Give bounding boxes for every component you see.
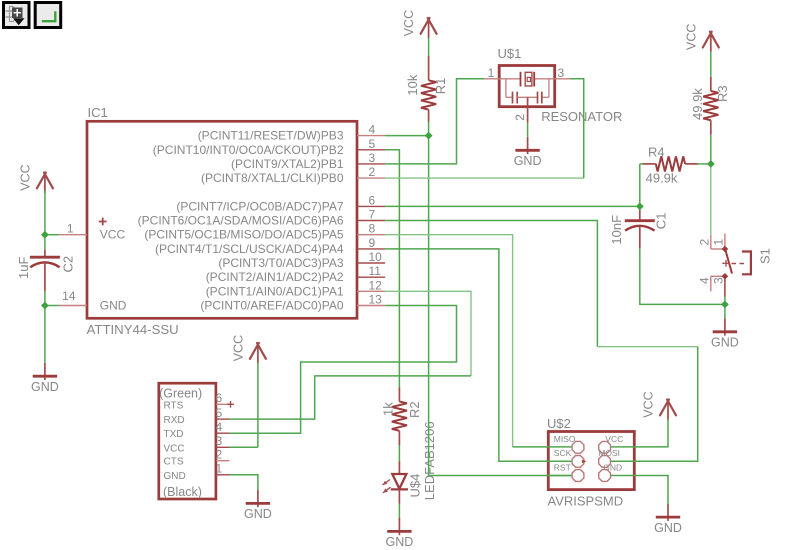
svg-text:TXD: TXD (164, 429, 184, 440)
svg-text:VCC: VCC (231, 335, 245, 361)
svg-text:1: 1 (488, 66, 495, 80)
svg-text:11: 11 (369, 264, 382, 278)
svg-text:5: 5 (216, 406, 223, 420)
svg-text:3: 3 (558, 66, 565, 80)
svg-text:9: 9 (369, 236, 376, 250)
svg-text:1: 1 (216, 462, 223, 476)
svg-text:1: 1 (67, 222, 74, 236)
svg-text:R1: R1 (433, 78, 448, 95)
svg-text:6: 6 (369, 193, 376, 207)
svg-text:GND: GND (514, 154, 542, 168)
svg-text:3: 3 (711, 277, 725, 284)
svg-text:AVRISPSMD: AVRISPSMD (548, 494, 624, 509)
svg-text:GND: GND (100, 299, 127, 313)
svg-text:4: 4 (369, 123, 376, 137)
svg-text:R2: R2 (407, 401, 422, 418)
svg-text:C1: C1 (654, 213, 669, 230)
svg-text:U$1: U$1 (498, 46, 522, 61)
svg-text:U$2: U$2 (547, 416, 571, 431)
svg-text:10k: 10k (405, 74, 420, 95)
svg-text:1uF: 1uF (16, 257, 31, 279)
svg-text:10: 10 (369, 250, 383, 264)
svg-text:49.9k: 49.9k (690, 88, 705, 120)
svg-text:(PCINT0/AREF/ADC0)PA0: (PCINT0/AREF/ADC0)PA0 (200, 299, 343, 313)
svg-text:RST: RST (554, 462, 571, 472)
svg-text:IC1: IC1 (88, 105, 108, 120)
svg-text:5: 5 (369, 137, 376, 151)
svg-text:(Black): (Black) (163, 485, 202, 499)
svg-text:(PCINT7/ICP/OC0B/ADC7)PA7: (PCINT7/ICP/OC0B/ADC7)PA7 (176, 199, 343, 213)
svg-text:3: 3 (369, 151, 376, 165)
svg-text:S1: S1 (758, 248, 773, 264)
svg-text:RXD: RXD (164, 415, 185, 426)
svg-text:14: 14 (62, 289, 76, 303)
svg-text:(Green): (Green) (159, 387, 202, 401)
svg-text:49.9k: 49.9k (646, 170, 678, 185)
svg-text:4: 4 (697, 277, 711, 284)
svg-text:ATTINY44-SSU: ATTINY44-SSU (87, 322, 179, 337)
svg-text:(PCINT5/OC1B/MISO/DO/ADC5)PA5: (PCINT5/OC1B/MISO/DO/ADC5)PA5 (144, 228, 343, 242)
svg-text:1: 1 (711, 239, 725, 246)
svg-text:MISO: MISO (554, 434, 576, 444)
svg-text:GND: GND (603, 462, 622, 472)
svg-text:2: 2 (513, 114, 527, 121)
svg-text:(PCINT10/INT0/OC0A/CKOUT)PB2: (PCINT10/INT0/OC0A/CKOUT)PB2 (153, 143, 344, 157)
svg-text:SCK: SCK (554, 448, 572, 458)
svg-text:GND: GND (654, 521, 682, 535)
svg-text:VCC: VCC (18, 164, 32, 190)
svg-text:12: 12 (369, 278, 383, 292)
svg-text:VCC: VCC (684, 24, 698, 50)
svg-text:RTS: RTS (164, 400, 184, 411)
svg-text:GND: GND (31, 380, 59, 394)
svg-text:VCC: VCC (642, 391, 656, 417)
svg-text:VCC: VCC (402, 10, 416, 36)
svg-text:R4: R4 (648, 144, 665, 159)
svg-text:13: 13 (369, 293, 383, 307)
svg-text:4: 4 (216, 420, 223, 434)
svg-text:(PCINT3/T0/ADC3)PA3: (PCINT3/T0/ADC3)PA3 (218, 256, 343, 270)
svg-text:GND: GND (711, 336, 739, 350)
svg-text:(PCINT11/RESET/DW)PB3: (PCINT11/RESET/DW)PB3 (198, 129, 344, 143)
svg-text:U$4: U$4 (408, 474, 423, 498)
svg-text:(PCINT9/XTAL2)PB1: (PCINT9/XTAL2)PB1 (231, 157, 344, 171)
svg-text:2: 2 (369, 165, 376, 179)
svg-text:(PCINT6/OC1A/SDA/MOSI/ADC6)PA6: (PCINT6/OC1A/SDA/MOSI/ADC6)PA6 (138, 214, 344, 228)
svg-text:10nF: 10nF (609, 215, 624, 245)
svg-text:C2: C2 (61, 256, 76, 273)
svg-text:VCC: VCC (605, 434, 623, 444)
svg-text:R3: R3 (715, 85, 730, 102)
svg-text:VCC: VCC (164, 443, 185, 454)
svg-text:(PCINT8/XTAL1/CLKI)PB0: (PCINT8/XTAL1/CLKI)PB0 (201, 171, 344, 185)
svg-text:MOSI: MOSI (598, 448, 620, 458)
svg-text:8: 8 (369, 222, 376, 236)
svg-text:VCC: VCC (100, 228, 126, 242)
svg-text:7: 7 (369, 208, 376, 222)
svg-text:RESONATOR: RESONATOR (541, 109, 622, 124)
svg-text:GND: GND (244, 507, 272, 521)
svg-text:6: 6 (216, 391, 223, 405)
svg-text:GND: GND (386, 535, 414, 549)
svg-text:CTS: CTS (164, 457, 184, 468)
svg-text:3: 3 (216, 434, 223, 448)
svg-text:2: 2 (216, 447, 223, 461)
svg-text:1k: 1k (380, 402, 395, 416)
svg-text:(PCINT4/T1/SCL/USCK/ADC4)PA4: (PCINT4/T1/SCL/USCK/ADC4)PA4 (155, 242, 344, 256)
svg-text:2: 2 (697, 239, 711, 246)
svg-text:GND: GND (164, 471, 186, 482)
svg-text:(PCINT2/AIN1/ADC2)PA2: (PCINT2/AIN1/ADC2)PA2 (206, 270, 344, 284)
svg-text:(PCINT1/AIN0/ADC1)PA1: (PCINT1/AIN0/ADC1)PA1 (206, 284, 344, 298)
